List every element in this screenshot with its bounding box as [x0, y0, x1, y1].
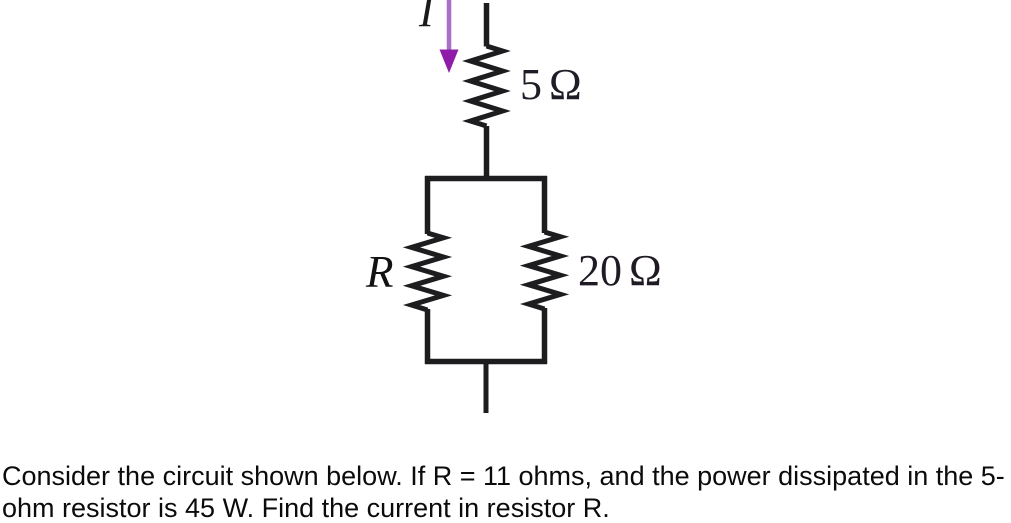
resistor R zigzag: [412, 233, 444, 310]
current arrow I (shaft): [447, 0, 452, 54]
node: box bottom rail: [425, 359, 547, 365]
wire top: [484, 3, 490, 47]
resistor 20ohm zigzag: [529, 232, 561, 309]
svg-text:R: R: [365, 247, 394, 297]
question text: [2, 461, 1011, 523]
svg-text:20 Ω: 20 Ω: [578, 246, 662, 295]
current arrow I (head): [440, 50, 459, 74]
wire right leg lower: [542, 308, 548, 364]
node: box top rail: [425, 176, 547, 182]
wire right leg upper: [542, 176, 548, 233]
wire left leg lower: [425, 309, 431, 364]
svg-text:5 Ω: 5 Ω: [520, 60, 582, 109]
wire bottom: [484, 361, 489, 413]
wire left leg upper: [425, 176, 431, 234]
resistor 5ohm zigzag: [471, 46, 503, 126]
svg-text:I: I: [418, 0, 436, 36]
wire middle: [484, 126, 490, 178]
